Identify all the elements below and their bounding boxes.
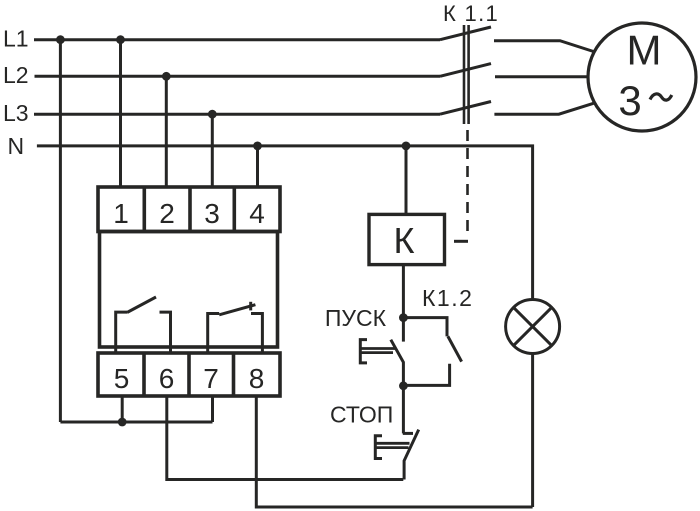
lamp HL cross: [514, 307, 552, 345]
button PUSK actuator bracket: [360, 340, 367, 363]
wire start node to stop button: [402, 386, 405, 434]
node L1-left tap: [56, 35, 65, 44]
contact K1.2 bottom lead: [403, 364, 449, 386]
wire L3 to motor: [494, 103, 593, 114]
svg-text:К: К: [394, 220, 415, 261]
motor M1 circle: [588, 23, 696, 131]
button STOP push rod: [376, 443, 410, 447]
button STOP actuator bracket: [375, 436, 382, 459]
motor label tilde: [650, 94, 672, 100]
svg-text:6: 6: [159, 363, 175, 394]
relay contact 7-8 arm: [219, 305, 255, 315]
node start top junction: [399, 313, 408, 322]
wire N (to lamp corner): [37, 146, 533, 300]
wire N to coil K: [405, 146, 408, 215]
wire L3 to terminal 3: [211, 114, 214, 187]
svg-text:1: 1: [113, 198, 129, 229]
relay contact 5-6 right lead: [160, 312, 171, 354]
wire L2 to motor: [495, 75, 587, 78]
contact K1.1 pole L1 arm: [440, 27, 491, 40]
node start bottom junction: [399, 381, 408, 390]
contact K1.1 linkage double bar: [464, 25, 469, 124]
relay contact 5-6 arm: [127, 297, 156, 313]
contact K1.2 top lead: [403, 318, 447, 337]
svg-text:8: 8: [249, 363, 265, 394]
svg-text:ПУСК: ПУСК: [325, 305, 387, 331]
node L2-terminal2 tap: [162, 72, 171, 81]
wire lamp bottom lead: [531, 354, 534, 507]
svg-text:L3: L3: [3, 100, 29, 126]
wire terminal 5 drop: [121, 396, 124, 422]
contact K1.1 pole L2 arm: [440, 64, 491, 77]
wire L2: [35, 75, 441, 78]
node N-terminal4 tap: [253, 142, 262, 151]
svg-text:5: 5: [114, 363, 130, 394]
node N-coil tap: [402, 142, 411, 151]
svg-text:2: 2: [159, 198, 175, 229]
button PUSK moving arm: [391, 340, 404, 386]
wire terminal 8 to lamp: [256, 396, 532, 507]
wire L1 to terminal 1: [119, 40, 122, 187]
relay device terminal row 1-4 frame: [98, 187, 280, 232]
svg-text:L2: L2: [3, 62, 29, 88]
svg-text:4: 4: [249, 198, 265, 229]
relay contact 5-6 left lead: [116, 312, 127, 354]
wire N to terminal 4: [256, 146, 259, 187]
coil K box: [369, 214, 445, 264]
relay device terminal row 5-8 frame: [98, 353, 280, 396]
wire L1 to motor: [494, 41, 594, 52]
svg-text:7: 7: [203, 363, 219, 394]
svg-text:М: М: [627, 27, 662, 74]
contact K1.1 pole L3 arm: [440, 102, 491, 115]
svg-text:К1.2: К1.2: [422, 285, 473, 311]
relay contact 7-8 right lead: [251, 314, 262, 355]
mechanical link tick: [454, 240, 468, 243]
svg-text:СТОП: СТОП: [330, 402, 393, 428]
button STOP moving arm: [404, 430, 419, 480]
node L1-terminal1 tap: [116, 35, 125, 44]
relay contact 7-8 tick: [249, 302, 252, 311]
svg-text:3: 3: [618, 77, 641, 124]
wire terminal 7 drop: [211, 396, 214, 422]
svg-text:К 1.1: К 1.1: [443, 1, 499, 26]
relay device body: [100, 232, 278, 348]
button PUSK push rod: [361, 349, 395, 353]
svg-text:N: N: [8, 133, 25, 159]
node terminal5 junction: [118, 418, 127, 427]
relay contact 7-8 left lead: [208, 314, 220, 355]
mechanical link dashed line: [466, 130, 469, 237]
wire coil K to start node: [402, 265, 405, 318]
svg-text:3: 3: [204, 198, 220, 229]
lamp HL circle: [506, 300, 560, 354]
wire bottom left bus: [60, 421, 212, 424]
wire L1: [34, 38, 440, 41]
wire left drop from L1: [59, 40, 62, 422]
wire L2 to terminal 2: [165, 76, 168, 187]
contact K1.2 arm: [448, 336, 462, 361]
svg-text:L1: L1: [3, 26, 29, 52]
wire terminal 6 to stop button: [167, 396, 403, 480]
wire L3: [34, 113, 440, 116]
button STOP fixed contact: [403, 432, 413, 435]
button PUSK top terminal: [402, 318, 405, 342]
node L3-terminal3 tap: [208, 110, 217, 119]
